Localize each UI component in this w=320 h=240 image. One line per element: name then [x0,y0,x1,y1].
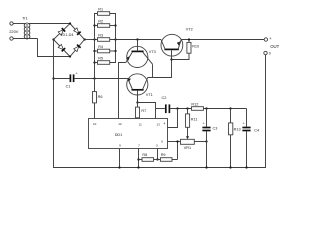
node R13 rail [229,166,231,168]
resistor R7 [136,103,147,119]
svg-text:12: 12 [118,122,122,126]
integrated circuit DD1 [89,119,168,149]
svg-text:220V: 220V [9,29,18,34]
wire pin13 vertical to C2 [156,108,165,110]
svg-text:R3: R3 [98,33,103,37]
svg-text:R12: R12 [191,103,198,107]
svg-text:11: 11 [139,123,142,127]
capacitor C3 [202,109,217,168]
svg-text:0: 0 [269,51,271,55]
transformer Tr1 [24,22,30,40]
node left rail R2 [93,24,95,26]
svg-text:R1: R1 [98,8,103,12]
left rail of resistor chain down to R6 [95,14,98,92]
svg-text:+: + [269,36,272,41]
capacitor C1 [70,72,77,83]
svg-text:Tr1: Tr1 [22,16,28,21]
wire R3 right to VT2 collector [110,39,161,41]
svg-text:R13: R13 [234,127,241,131]
wire pin 4 up to feedback wire [168,109,178,128]
resistor R13 [229,109,241,168]
node bridge right [84,38,86,40]
wire secondary bottom L to bridge bottom [38,39,70,57]
node right rail R2 [114,24,116,26]
right rail of resistor chain [110,14,116,63]
wire VT1/VT3 collectors to VT2 base [148,60,172,78]
svg-text:+: + [203,121,205,125]
capacitor C4 [242,109,259,168]
svg-text:R11: R11 [191,118,198,122]
svg-text:+: + [243,121,245,125]
node VR1 right on C3 branch [205,140,207,142]
capacitor C2 [162,96,170,113]
svg-text:R4: R4 [98,45,103,49]
svg-text:C2: C2 [162,96,167,100]
wire pin 5 down [157,149,159,160]
resistor R9 [160,153,177,161]
wire pin 7 down [138,149,140,168]
svg-text:C3: C3 [213,127,218,131]
wire C1 to VT1 emitter [74,78,127,80]
node R8 R9 junction [156,158,158,160]
resistor R10 [187,40,199,54]
node pin9 rail [118,166,120,168]
wire pin6 node vertical down to R9 [177,142,179,160]
node R6 top [93,77,95,79]
resistor R12 [191,103,203,111]
svg-text:C4: C4 [254,128,259,132]
node left rail R5 [93,61,95,63]
svg-text:R2: R2 [98,19,103,23]
node left rail R4 [93,50,95,52]
wire pin 9 down [119,149,121,168]
node bridge top [69,22,71,24]
node VT2 base [170,58,172,60]
resistor R11 [186,109,198,128]
node R10 top [188,38,190,40]
transistor VT2 [161,28,193,60]
svg-text:OUT: OUT [270,44,279,49]
svg-text:R9: R9 [161,153,166,157]
transistor VT3 [126,40,156,68]
wire VR1 right to C3 branch [194,141,206,143]
node C3 rail [205,166,207,168]
diode lower-right [74,45,81,52]
node VT3 base rail [136,38,138,40]
svg-text:VT3: VT3 [149,50,156,54]
node right rail R4 [114,50,116,52]
wire [13,23,26,25]
node R13 top [229,107,231,109]
terminal OUT + [264,38,267,41]
resistor R4 [95,45,116,53]
wire secondary top to bridge [28,23,69,25]
resistor R3 [98,33,110,41]
wire pin 6 [168,141,178,143]
svg-text:VT2: VT2 [186,28,193,32]
wire VT3 collector down [152,64,154,77]
input terminal bottom [10,37,13,40]
potentiometer VR1 [181,139,195,150]
svg-text:R5: R5 [98,56,103,60]
node feedback tee [176,107,178,109]
svg-text:R10: R10 [192,45,199,49]
wiper wire R11 to VR1 [187,127,189,136]
input terminal top [10,22,13,25]
wire base node to R10 bottom [172,53,190,59]
svg-text:VT1: VT1 [146,93,153,97]
node VT1 base junction [136,101,138,103]
node bridge bottom [69,55,71,57]
resistor R2 [95,19,116,27]
svg-text:R8: R8 [142,153,147,157]
wire minus to C1 [54,78,70,80]
wire R6 bottom to pin10 [94,103,96,119]
wire [13,38,37,40]
svg-text:DD1: DD1 [115,133,123,137]
svg-text:C1: C1 [66,84,71,88]
node C3 top [205,107,207,109]
resistor R8 [139,153,161,161]
node pin7 R8 [137,158,139,160]
wire C2 to OUT0 vertical [170,108,246,110]
resistor R6 [93,92,103,103]
node bridge left [52,38,54,40]
transistor VT1 [127,74,153,103]
svg-text:13: 13 [156,123,160,127]
wire VT3 emitter to DD1 pin 12 [119,63,126,119]
node left rail R3 [93,38,95,40]
diode upper-right [74,28,81,35]
node C4 rail [245,166,247,168]
wire DC minus vertical and bottom rail [54,40,266,168]
resistor R1 [95,8,116,16]
wire emitter rail to OUT+ [181,39,264,41]
node C1 tee [52,77,54,79]
node pin6/VR1 [176,140,178,142]
wire rail bridge to R3 [85,39,98,41]
svg-text:R7: R7 [141,109,146,113]
terminal OUT 0 [264,51,267,54]
svg-text:+: + [76,72,78,76]
svg-text:VR1: VR1 [184,146,191,150]
node pin7 rail [137,166,139,168]
wire VR1 left [178,141,181,143]
diode upper-left [58,28,65,35]
resistor R5 [95,56,116,64]
svg-text:10: 10 [93,122,97,126]
bridge rectifier VD1-D4 diamond [54,24,85,57]
node R11 top [186,107,188,109]
wire VT1 base node to pin 13 [138,103,156,119]
diode lower-left [58,44,65,51]
node right rail R3 [114,38,116,40]
svg-text:R6: R6 [98,95,103,99]
